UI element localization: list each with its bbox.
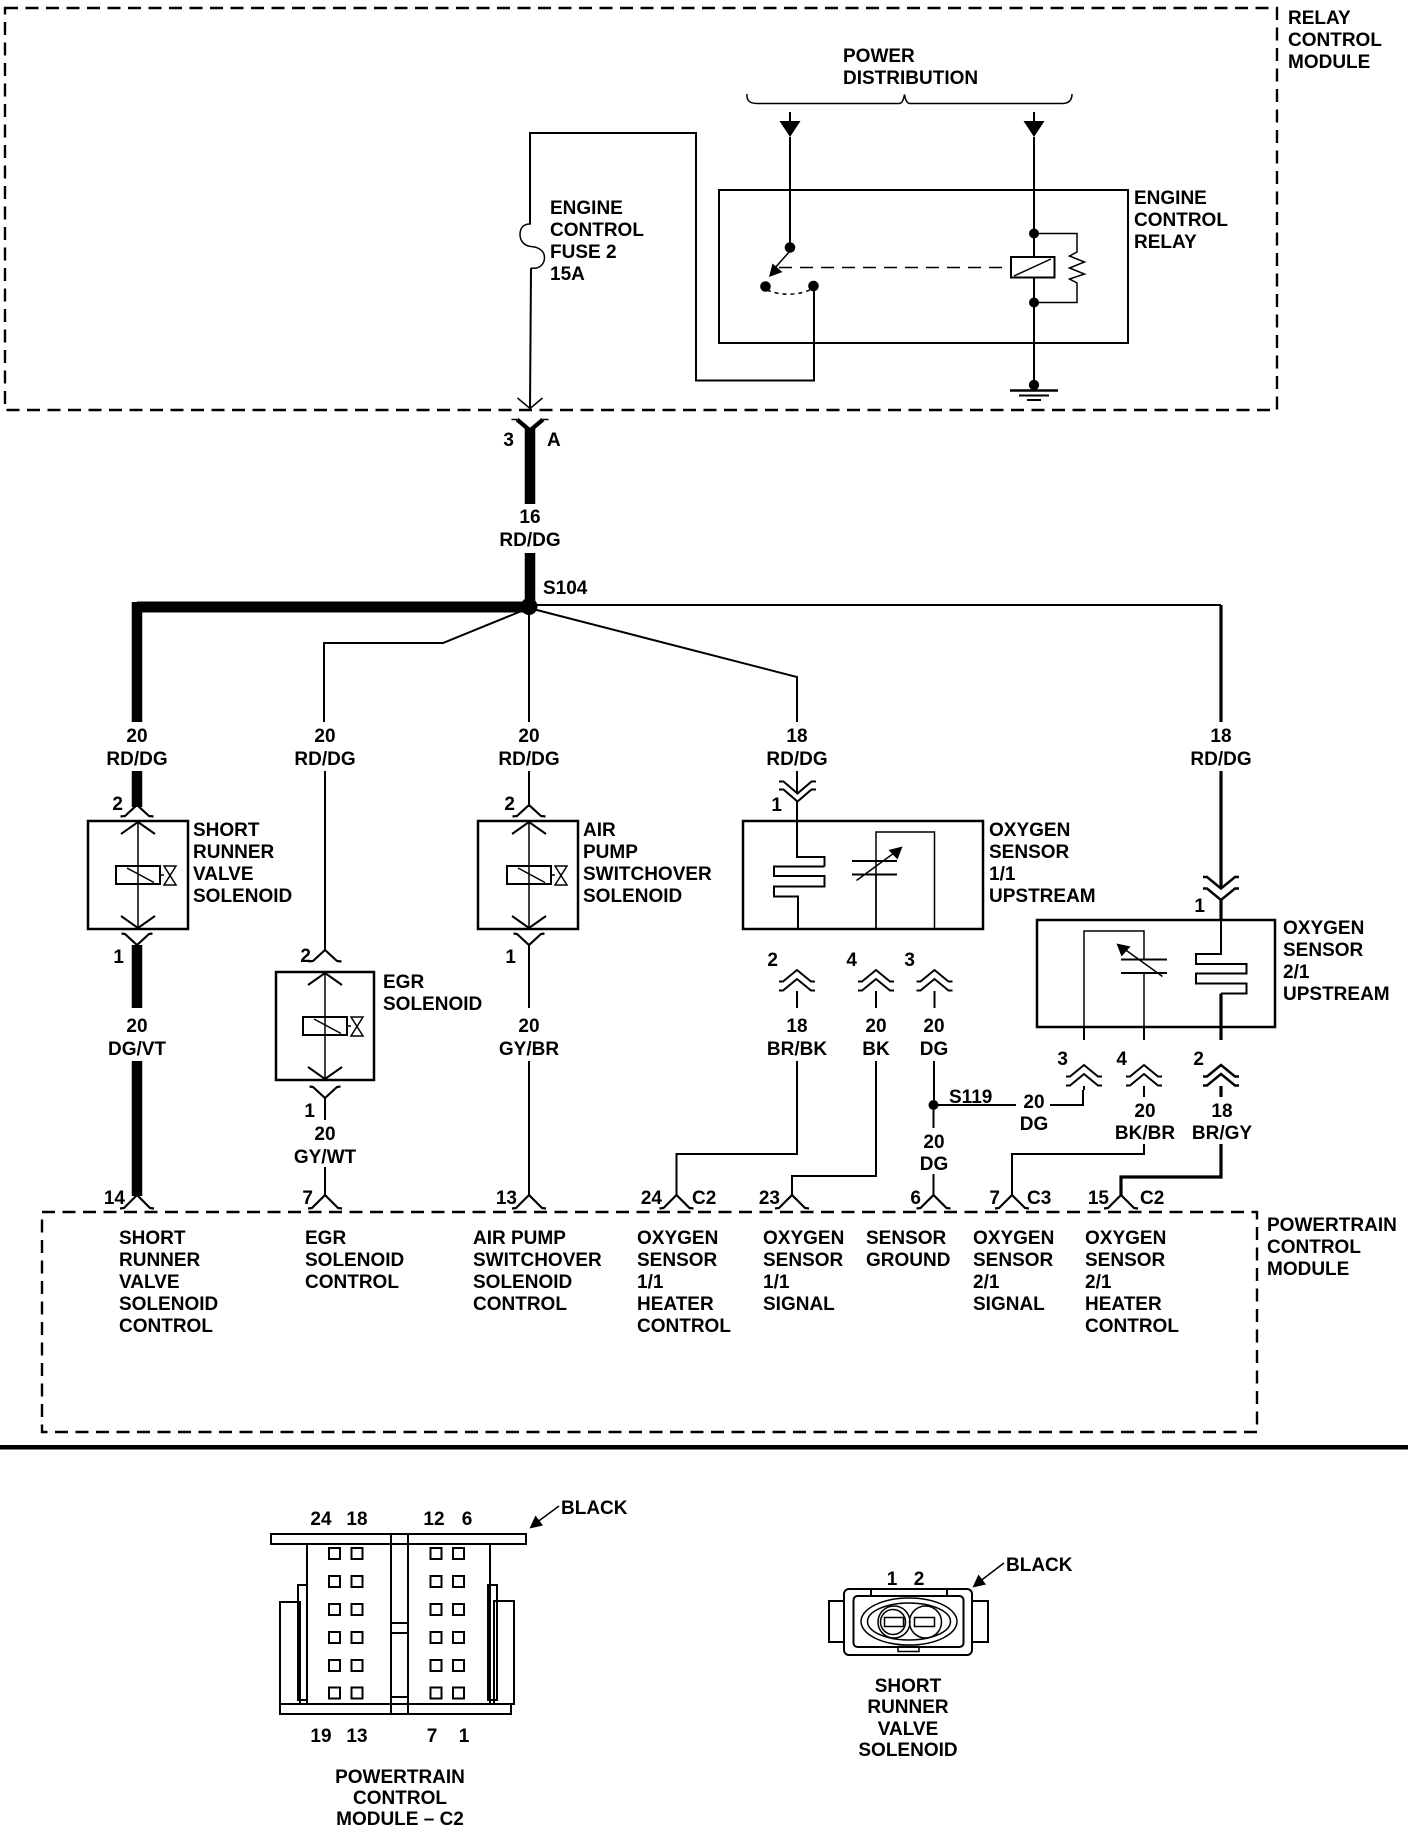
svg-text:16: 16 — [519, 507, 540, 528]
relay coil K1 — [1011, 257, 1055, 278]
svg-text:RELAY: RELAY — [1288, 8, 1351, 29]
svg-text:2: 2 — [767, 950, 778, 971]
svg-text:OXYGEN: OXYGEN — [763, 1228, 844, 1249]
svg-text:20: 20 — [1023, 1092, 1044, 1113]
svg-text:DISTRIBUTION: DISTRIBUTION — [843, 68, 978, 89]
svg-text:C2: C2 — [692, 1188, 716, 1209]
O2 2/1 pin 2 inline connector — [1203, 1065, 1239, 1086]
svg-text:24: 24 — [310, 1509, 332, 1530]
wire to air pump pin 2 — [528, 771, 530, 807]
svg-text:15: 15 — [1088, 1188, 1110, 1209]
svg-text:RD/DG: RD/DG — [498, 749, 559, 770]
svg-text:AIR: AIR — [583, 820, 616, 841]
ground junction dot — [1029, 380, 1039, 390]
svg-text:CONTROL: CONTROL — [473, 1294, 567, 1315]
wire label 18 BR/BK — [767, 1016, 827, 1060]
relay switch NO contact — [808, 281, 819, 292]
svg-text:RD/DG: RD/DG — [499, 530, 560, 551]
wire S119 down — [933, 1110, 935, 1128]
svg-text:GY/BR: GY/BR — [499, 1039, 559, 1060]
SECTION-TOP — [5, 8, 1382, 615]
arrow to PCM connector — [530, 1506, 560, 1529]
pin label 2 (SRV) — [112, 794, 123, 815]
pin label 2 (O2 2/1) — [1193, 1049, 1204, 1070]
PCM pin 15 terminal — [1104, 1195, 1138, 1209]
svg-text:OXYGEN: OXYGEN — [1085, 1228, 1166, 1249]
wire label 20 GY/WT — [294, 1124, 357, 1168]
wire to PCM pin 6 — [933, 1174, 935, 1196]
dashed travel arc between contacts — [767, 289, 812, 294]
pin label 1 (EGR) — [304, 1101, 315, 1122]
pin label 24 — [641, 1188, 663, 1209]
SRV solenoid connector body — [829, 1589, 988, 1655]
arrowhead at module boundary — [518, 398, 543, 409]
svg-text:RD/DG: RD/DG — [766, 749, 827, 770]
thick wire to SRV pin 2 — [132, 771, 143, 807]
svg-text:20: 20 — [314, 1124, 335, 1145]
svg-text:RELAY: RELAY — [1134, 232, 1197, 253]
svg-text:12: 12 — [423, 1509, 444, 1530]
svg-text:EGR: EGR — [305, 1228, 346, 1249]
svg-text:1: 1 — [771, 795, 782, 816]
PCM C2 connector pin labels bottom — [310, 1726, 469, 1747]
svg-text:BR/BK: BR/BK — [767, 1039, 827, 1060]
svg-text:20: 20 — [1134, 1101, 1155, 1122]
svg-text:S104: S104 — [543, 578, 588, 599]
svg-text:CONTROL: CONTROL — [1288, 30, 1382, 51]
svg-text:SENSOR: SENSOR — [989, 842, 1070, 863]
label ENGINE CONTROL FUSE 2 15A — [550, 198, 644, 285]
svg-text:1: 1 — [505, 947, 516, 968]
svg-text:SOLENOID: SOLENOID — [193, 886, 292, 907]
PCM pin 7 C3 terminal — [995, 1195, 1029, 1209]
thick wire SRV to PCM lower — [132, 1061, 143, 1196]
svg-text:ENGINE: ENGINE — [1134, 188, 1207, 209]
svg-text:VALVE: VALVE — [193, 864, 254, 885]
svg-text:CONTROL: CONTROL — [550, 220, 644, 241]
label EGR SOLENOID — [383, 972, 482, 1015]
svg-text:2: 2 — [1193, 1049, 1204, 1070]
svg-text:SENSOR: SENSOR — [1283, 940, 1364, 961]
svg-text:SOLENOID: SOLENOID — [473, 1272, 572, 1293]
splice S104 — [521, 598, 538, 615]
svg-text:1/1: 1/1 — [637, 1272, 664, 1293]
svg-text:SENSOR: SENSOR — [866, 1228, 947, 1249]
svg-text:14: 14 — [104, 1188, 126, 1209]
coil bottom junction — [1029, 298, 1039, 308]
svg-text:SHORT: SHORT — [875, 1676, 942, 1697]
coil top junction — [1029, 229, 1039, 239]
label air pump switchover solenoid control — [473, 1228, 602, 1315]
thick branch right to oxygen sensor 2/1 — [1219, 605, 1222, 722]
O2 1/1 sensing element — [852, 832, 935, 929]
wire branch stub to O2 1/1 connector — [796, 771, 798, 792]
wire label 18 RD/DG (O2 2/1) — [1190, 726, 1251, 770]
label POWER DISTRIBUTION — [843, 46, 978, 89]
svg-text:RUNNER: RUNNER — [867, 1697, 949, 1718]
thick wire O2 2/1 pin 2 stubs — [1219, 1027, 1222, 1097]
label oxygen sensor 1/1 heater control — [637, 1228, 731, 1337]
svg-text:20: 20 — [126, 726, 147, 747]
wire label 20 RD/DG (air pump) — [498, 726, 559, 770]
ground symbol — [1010, 391, 1058, 401]
label oxygen sensor 2/1 signal — [973, 1228, 1054, 1315]
svg-text:15A: 15A — [550, 264, 585, 285]
label oxygen sensor 2/1 heater control — [1085, 1228, 1179, 1337]
O2 1/1 pin 3 inline connector — [917, 970, 953, 991]
wire label 16 RD/DG — [499, 507, 560, 551]
wire to EGR pin 2 — [324, 771, 326, 949]
air pump pin 1 terminal — [514, 934, 545, 946]
svg-text:MODULE: MODULE — [1267, 1259, 1349, 1280]
PCM C2 connector pin labels top — [310, 1509, 472, 1530]
wire EGR to PCM lower — [324, 1167, 326, 1196]
svg-text:BR/GY: BR/GY — [1192, 1123, 1253, 1144]
wire fuse to module edge — [530, 268, 531, 408]
svg-text:UPSTREAM: UPSTREAM — [989, 886, 1096, 907]
pin label 2 (EGR) — [300, 946, 311, 967]
EGR pin 1 terminal — [310, 1087, 341, 1099]
svg-text:MODULE: MODULE — [1288, 52, 1370, 73]
label short runner valve solenoid control — [119, 1228, 218, 1337]
svg-text:2: 2 — [914, 1569, 925, 1590]
svg-text:C2: C2 — [1140, 1188, 1164, 1209]
svg-text:1: 1 — [887, 1569, 898, 1590]
relay control module dashed box — [5, 8, 1277, 410]
svg-text:BK/BR: BK/BR — [1115, 1123, 1175, 1144]
svg-text:1: 1 — [113, 947, 124, 968]
svg-text:20: 20 — [518, 726, 539, 747]
svg-text:UPSTREAM: UPSTREAM — [1283, 984, 1390, 1005]
O2 2/1 sensing element — [1084, 931, 1167, 1027]
pin label 1 (O2 1/1) — [771, 795, 782, 816]
svg-text:6: 6 — [910, 1188, 921, 1209]
wire O2 2/1 pin 3 stub — [1083, 1027, 1085, 1090]
svg-text:DG: DG — [1020, 1114, 1049, 1135]
label POWERTRAIN CONTROL MODULE - C2 — [335, 1767, 465, 1830]
svg-text:BLACK: BLACK — [1006, 1555, 1073, 1576]
wire branch to oxygen sensor 1/1 — [529, 608, 797, 722]
label oxygen sensor 1/1 signal — [763, 1228, 844, 1315]
wire branch to EGR — [324, 608, 529, 722]
svg-text:RD/DG: RD/DG — [1190, 749, 1251, 770]
svg-text:23: 23 — [759, 1188, 780, 1209]
label RELAY CONTROL MODULE — [1288, 8, 1382, 73]
pin label 1 (air pump) — [505, 947, 516, 968]
svg-text:4: 4 — [846, 950, 857, 971]
pin label 2 (air pump) — [504, 794, 515, 815]
wire label 20 RD/DG (EGR) — [294, 726, 355, 770]
label BLACK (SRV connector) — [1006, 1555, 1073, 1576]
thick feed wire to splice — [525, 553, 536, 602]
svg-text:DG: DG — [920, 1154, 949, 1175]
thick branch left to SRV solenoid — [132, 602, 143, 722]
EGR pin 2 terminal — [309, 950, 342, 962]
label sensor ground — [866, 1228, 950, 1271]
wire S119 to O2 2/1 pin 3 — [938, 1090, 1083, 1105]
O2 2/1 pin 4 inline connector — [1126, 1065, 1162, 1086]
svg-text:20: 20 — [923, 1016, 944, 1037]
svg-text:SHORT: SHORT — [119, 1228, 186, 1249]
fuse F2 — [520, 224, 545, 268]
svg-text:RD/DG: RD/DG — [294, 749, 355, 770]
svg-text:4: 4 — [1116, 1049, 1127, 1070]
EGR solenoid internals — [303, 972, 363, 1080]
svg-text:SOLENOID: SOLENOID — [858, 1740, 957, 1761]
EGR solenoid box — [276, 972, 374, 1080]
SRV pin 1 terminal — [122, 934, 153, 946]
PCM pin 14 terminal — [120, 1195, 154, 1209]
wire O2 signal to PCM pin 23 — [792, 1061, 876, 1196]
svg-text:18: 18 — [786, 726, 807, 747]
brace under power distribution — [747, 94, 1072, 104]
svg-text:OXYGEN: OXYGEN — [989, 820, 1070, 841]
svg-text:2: 2 — [504, 794, 515, 815]
O2 1/1 pin 2 inline connector — [779, 970, 815, 991]
wire label 20 BK/BR — [1115, 1101, 1175, 1144]
wire from right feed to relay coil — [1033, 137, 1035, 257]
svg-text:BLACK: BLACK — [561, 1498, 628, 1519]
PCM C2 connector body — [271, 1534, 526, 1714]
PCM pin 24 terminal — [660, 1195, 694, 1209]
pin label 6 — [910, 1188, 921, 1209]
svg-text:CONTROL: CONTROL — [305, 1272, 399, 1293]
svg-text:7: 7 — [302, 1188, 313, 1209]
PCM pin 23 terminal — [775, 1195, 809, 1209]
svg-text:CONTROL: CONTROL — [1085, 1316, 1179, 1337]
svg-text:GROUND: GROUND — [866, 1250, 950, 1271]
svg-text:CONTROL: CONTROL — [353, 1788, 447, 1809]
label OXYGEN SENSOR 2/1 UPSTREAM — [1283, 918, 1390, 1005]
label EGR solenoid control — [305, 1228, 404, 1293]
SRV solenoid internals — [116, 821, 176, 929]
svg-text:RUNNER: RUNNER — [119, 1250, 201, 1271]
pin label 1 (O2 2/1) — [1194, 896, 1205, 917]
svg-text:2: 2 — [112, 794, 123, 815]
wire branch to air pump solenoid — [528, 606, 530, 722]
pin label 1 (SRV) — [113, 947, 124, 968]
svg-text:BK: BK — [862, 1039, 890, 1060]
svg-text:2/1: 2/1 — [973, 1272, 1000, 1293]
svg-text:1/1: 1/1 — [989, 864, 1016, 885]
svg-text:OXYGEN: OXYGEN — [1283, 918, 1364, 939]
wire label 18 RD/DG (O2 1/1) — [766, 726, 827, 770]
pin label 3 (O2 1/1) — [904, 950, 915, 971]
svg-text:18: 18 — [1211, 1101, 1232, 1122]
svg-text:SOLENOID: SOLENOID — [305, 1250, 404, 1271]
svg-text:20: 20 — [923, 1132, 944, 1153]
wire label 20 RD/DG (SRV) — [106, 726, 167, 770]
short runner valve solenoid box — [88, 821, 188, 929]
wire O2 signal upper — [875, 991, 877, 1008]
svg-text:2/1: 2/1 — [1283, 962, 1310, 983]
arrow to SRV connector — [973, 1563, 1005, 1588]
O2 1/1 inline connector pin 1 — [779, 782, 816, 802]
label ENGINE CONTROL RELAY — [1134, 188, 1228, 253]
svg-text:SIGNAL: SIGNAL — [973, 1294, 1045, 1315]
svg-text:20: 20 — [518, 1016, 539, 1037]
pin label 4 (O2 2/1) — [1116, 1049, 1127, 1070]
thick wire connector to O2 2/1 box — [1219, 899, 1222, 920]
thin bus wire right from S104 — [529, 604, 1221, 606]
wire from left feed to switch — [789, 137, 791, 247]
svg-text:RD/DG: RD/DG — [106, 749, 167, 770]
svg-text:PUMP: PUMP — [583, 842, 638, 863]
power feed arrow B+ right — [1024, 112, 1045, 137]
svg-text:13: 13 — [496, 1188, 517, 1209]
svg-text:SENSOR: SENSOR — [763, 1250, 844, 1271]
svg-text:2/1: 2/1 — [1085, 1272, 1112, 1293]
svg-text:ENGINE: ENGINE — [550, 198, 623, 219]
SRV pin 2 terminal — [121, 805, 154, 817]
engine control relay box — [719, 190, 1128, 343]
relay switch pivot contact — [785, 242, 796, 253]
splice S119 — [929, 1100, 939, 1110]
label AIR PUMP SWITCHOVER SOLENOID — [583, 820, 712, 907]
air pump pin 2 terminal — [513, 805, 546, 817]
svg-text:OXYGEN: OXYGEN — [637, 1228, 718, 1249]
svg-text:2: 2 — [300, 946, 311, 967]
powertrain control module dashed box — [42, 1212, 1257, 1432]
svg-text:20: 20 — [865, 1016, 886, 1037]
connector pins 3 / A — [512, 420, 549, 431]
svg-text:FUSE 2: FUSE 2 — [550, 242, 617, 263]
PCM pin 7 terminal — [308, 1195, 342, 1209]
svg-text:SIGNAL: SIGNAL — [763, 1294, 835, 1315]
wire to splice S119 — [933, 1061, 935, 1100]
svg-text:6: 6 — [462, 1509, 473, 1530]
svg-text:C3: C3 — [1027, 1188, 1051, 1209]
relay switch common contact — [760, 281, 771, 292]
svg-text:3: 3 — [904, 950, 915, 971]
svg-text:3: 3 — [503, 430, 514, 451]
SRV connector pin labels — [887, 1569, 925, 1590]
pin label A — [547, 430, 561, 451]
svg-text:18: 18 — [786, 1016, 807, 1037]
pin label 14 — [104, 1188, 126, 1209]
label OXYGEN SENSOR 1/1 UPSTREAM — [989, 820, 1096, 907]
label SHORT RUNNER VALVE SOLENOID — [193, 820, 292, 907]
relay switch arm with arrowhead — [769, 251, 790, 277]
O2 1/1 pin 4 inline connector — [858, 970, 894, 991]
oxygen sensor 2/1 upstream box — [1037, 920, 1275, 1027]
air pump solenoid internals — [507, 821, 567, 929]
wire connector to O2 1/1 box — [796, 801, 798, 821]
svg-text:CONTROL: CONTROL — [119, 1316, 213, 1337]
svg-text:1: 1 — [459, 1726, 470, 1747]
svg-text:AIR PUMP: AIR PUMP — [473, 1228, 566, 1249]
wire label 20 DG — [920, 1016, 949, 1060]
svg-text:SOLENOID: SOLENOID — [383, 994, 482, 1015]
pin label C2 (24) — [692, 1188, 716, 1209]
wire air pump to PCM lower — [528, 1061, 530, 1196]
O2 2/1 pin 3 inline connector — [1066, 1065, 1102, 1086]
svg-text:VALVE: VALVE — [119, 1272, 180, 1293]
wire label 20 DG (S119 branch) — [1020, 1092, 1049, 1135]
wire label 18 BR/GY — [1192, 1101, 1253, 1144]
svg-text:DG/VT: DG/VT — [108, 1039, 166, 1060]
pin label 7 — [302, 1188, 313, 1209]
svg-text:SENSOR: SENSOR — [1085, 1250, 1166, 1271]
thick wire SRV to PCM upper — [132, 945, 143, 1008]
svg-text:OXYGEN: OXYGEN — [973, 1228, 1054, 1249]
pin label C3 — [1027, 1188, 1051, 1209]
svg-text:VALVE: VALVE — [878, 1719, 939, 1740]
thick wire O2 2/1 heater to PCM pin 15 C2 — [1121, 1144, 1221, 1196]
pin label 3 — [503, 430, 514, 451]
relay suppression resistor — [1034, 234, 1085, 303]
section divider rule — [0, 1445, 1408, 1450]
svg-text:1: 1 — [304, 1101, 315, 1122]
svg-text:HEATER: HEATER — [637, 1294, 714, 1315]
svg-text:CONTROL: CONTROL — [637, 1316, 731, 1337]
svg-text:20: 20 — [126, 1016, 147, 1037]
thick wire to O2 2/1 pin 1 — [1219, 771, 1222, 888]
svg-text:SOLENOID: SOLENOID — [583, 886, 682, 907]
wire coil to ground — [1033, 278, 1035, 382]
power feed arrow B+ left — [780, 112, 801, 137]
label S104 — [543, 578, 588, 599]
thick bus wire left from S104 — [137, 602, 529, 613]
wire O2 2/1 signal to PCM pin 7 C3 — [1012, 1144, 1144, 1196]
pin label 15 — [1088, 1188, 1110, 1209]
svg-text:SENSOR: SENSOR — [973, 1250, 1054, 1271]
svg-text:3: 3 — [1057, 1049, 1068, 1070]
svg-text:24: 24 — [641, 1188, 663, 1209]
PCM C2 connector pin cavities — [329, 1548, 464, 1699]
label S119 — [949, 1087, 992, 1108]
svg-text:7: 7 — [427, 1726, 438, 1747]
oxygen sensor 1/1 upstream box — [743, 821, 983, 929]
svg-text:MODULE – C2: MODULE – C2 — [336, 1809, 464, 1830]
svg-text:1/1: 1/1 — [763, 1272, 790, 1293]
label BLACK (PCM connector) — [561, 1498, 628, 1519]
pin label 13 — [496, 1188, 517, 1209]
wire O2 2/1 pin 4 stubs — [1143, 1027, 1145, 1097]
svg-text:CONTROL: CONTROL — [1267, 1237, 1361, 1258]
PCM pin 6 terminal — [917, 1195, 951, 1209]
wire air pump to PCM upper — [528, 945, 530, 1008]
wire label 20 DG/VT — [108, 1016, 166, 1060]
SECTION-MID — [42, 602, 1397, 1432]
svg-text:RUNNER: RUNNER — [193, 842, 275, 863]
svg-text:HEATER: HEATER — [1085, 1294, 1162, 1315]
svg-text:7: 7 — [989, 1188, 1000, 1209]
SECTION-BOTTOM — [0, 1445, 1408, 1830]
svg-text:SWITCHOVER: SWITCHOVER — [473, 1250, 602, 1271]
pin label 4 (O2 1/1) — [846, 950, 857, 971]
label POWERTRAIN CONTROL MODULE — [1267, 1215, 1397, 1280]
svg-text:SOLENOID: SOLENOID — [119, 1294, 218, 1315]
svg-text:POWERTRAIN: POWERTRAIN — [1267, 1215, 1397, 1236]
thick feed wire below connector — [525, 428, 536, 504]
wire label 20 BK — [862, 1016, 890, 1060]
pin label C2 (15) — [1140, 1188, 1164, 1209]
svg-text:13: 13 — [346, 1726, 367, 1747]
pin label 3 (O2 2/1) — [1057, 1049, 1068, 1070]
svg-text:POWERTRAIN: POWERTRAIN — [335, 1767, 465, 1788]
O2 1/1 heater element — [774, 821, 825, 929]
pin label 7 (C3) — [989, 1188, 1000, 1209]
svg-text:1: 1 — [1194, 896, 1205, 917]
svg-text:EGR: EGR — [383, 972, 424, 993]
wire heater control to PCM pin 24 — [677, 1061, 798, 1196]
wire fuse top run — [530, 133, 814, 381]
pin label 23 — [759, 1188, 780, 1209]
svg-text:CONTROL: CONTROL — [1134, 210, 1228, 231]
wire label 20 DG (sensor ground) — [920, 1132, 949, 1175]
wire EGR to PCM upper — [324, 1098, 326, 1120]
